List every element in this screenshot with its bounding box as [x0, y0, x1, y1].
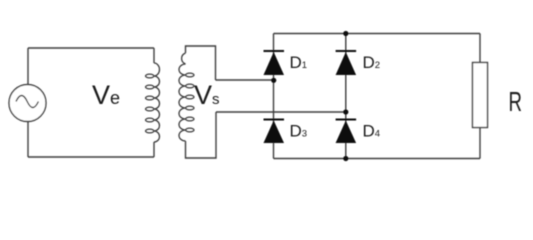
- diode D1: [264, 51, 285, 75]
- diode D2: [336, 51, 357, 75]
- wire Ve loop right upper: [153, 48, 155, 63]
- wire secondary top lead: [186, 46, 216, 80]
- wire left bus: [273, 34, 275, 159]
- resistor R: [473, 63, 488, 128]
- wire Ve loop bottom rail: [28, 156, 154, 158]
- svg-text:R: R: [509, 86, 523, 117]
- diode D3: [264, 120, 285, 144]
- wire Ve loop top rail: [28, 47, 154, 49]
- inductor L2 secondary winding: [179, 53, 194, 141]
- wire node A top AC feed: [216, 79, 274, 81]
- diode D4: [336, 120, 357, 144]
- wire node B bottom AC feed: [216, 111, 346, 113]
- wire Ve loop left upper: [27, 48, 29, 85]
- wire bridge top rail: [274, 33, 481, 35]
- wire secondary bottom lead: [186, 112, 217, 158]
- junction dot bottom rail: [343, 156, 348, 161]
- inductor L1 primary winding: [146, 63, 160, 142]
- wire right bus: [345, 34, 347, 159]
- wire Ve loop left lower: [27, 122, 29, 158]
- AC source Ve: [9, 85, 46, 122]
- wire bridge bottom rail: [274, 158, 481, 160]
- junction dot top rail: [343, 31, 348, 36]
- wire load right side upper: [479, 34, 481, 63]
- wire load right side lower: [479, 128, 481, 159]
- junction dot left bus node A: [271, 78, 276, 83]
- junction dot right bus node B: [343, 109, 348, 114]
- wire Ve loop right lower: [153, 142, 155, 157]
